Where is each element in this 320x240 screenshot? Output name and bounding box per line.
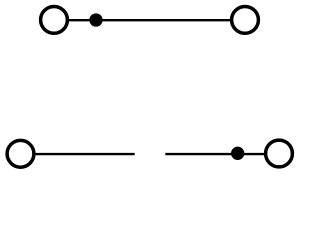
wire (upper level) [69,19,231,21]
terminal point (open circle, lower right) [266,140,293,167]
upper level conductor path [41,7,259,34]
terminal point (open circle, lower left) [7,140,34,167]
terminal point (open circle, upper right) [232,7,259,34]
lower level conductor path [7,140,292,167]
terminal point (open circle, upper left) [41,7,68,34]
junction dot (lower level) [231,147,244,160]
wire (lower level, right segment) [165,153,264,155]
junction dot (upper level) [89,13,102,26]
wire (lower level, left segment) [35,153,135,155]
